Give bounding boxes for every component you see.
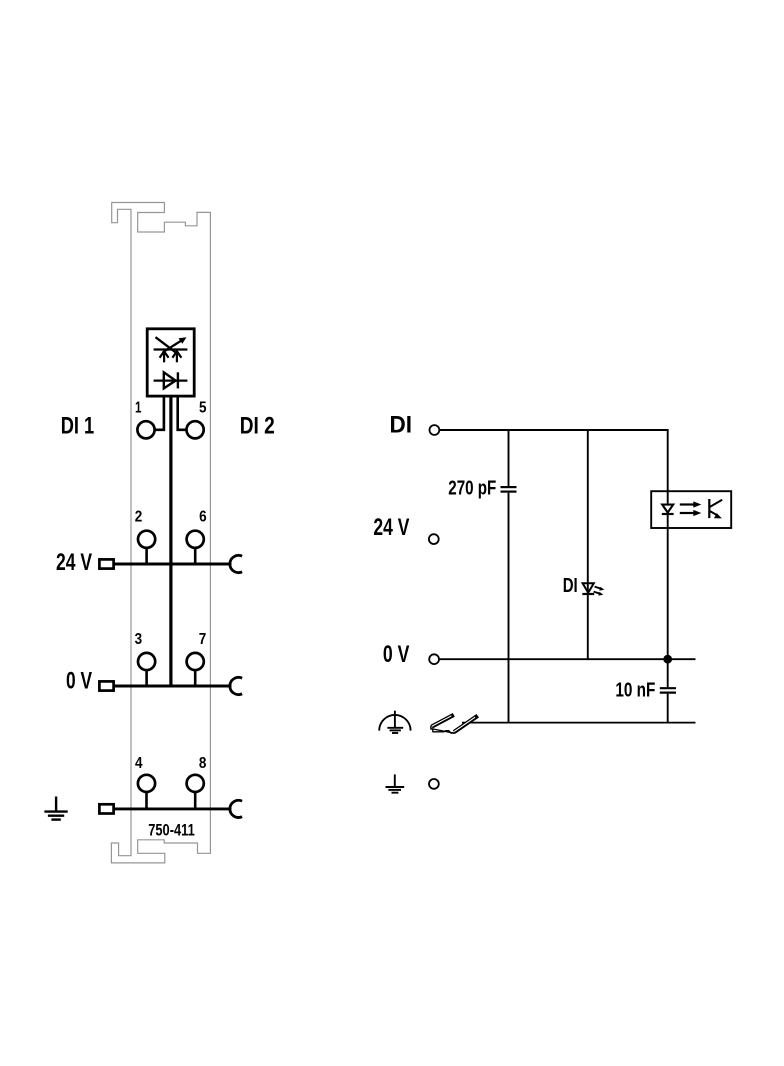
diode D1 cathode bar bbox=[177, 372, 179, 388]
stem pin 3 bbox=[145, 670, 148, 686]
contact pin 8 bbox=[187, 775, 204, 792]
contact pin 4 bbox=[138, 775, 155, 792]
diode D1 triangle bbox=[164, 372, 176, 388]
wire leg pin1 to box bbox=[155, 396, 164, 430]
optocoupler box bbox=[651, 491, 731, 528]
svg-text:2: 2 bbox=[135, 508, 143, 525]
optocoupler box U1 bbox=[147, 329, 194, 396]
up arrow left bbox=[160, 351, 169, 362]
contact pin 3 bbox=[138, 653, 155, 670]
ground symbol left bbox=[44, 797, 67, 820]
wire DI top bbox=[440, 429, 668, 431]
bus 0V bbox=[115, 685, 232, 688]
suppressor bar bbox=[154, 348, 188, 350]
terminal 0V bbox=[429, 654, 439, 664]
junction dot bbox=[663, 655, 672, 664]
wire center vertical to 0V bus bbox=[169, 396, 172, 686]
terminal 24V bbox=[429, 534, 439, 544]
terminal rect 24V bbox=[99, 559, 113, 568]
opto phototransistor bbox=[709, 499, 722, 518]
clamp hook 0V bbox=[230, 677, 242, 694]
contact pin 2 bbox=[138, 531, 155, 548]
stem pin 6 bbox=[194, 548, 197, 564]
suppressor diagonal line bbox=[156, 337, 176, 352]
wire leg pin5 to box bbox=[178, 396, 187, 430]
diode D1 line bbox=[154, 379, 188, 381]
terminal rect 0V bbox=[99, 681, 113, 690]
module outline 750-411 housing bbox=[111, 203, 210, 863]
suppressor arrow bbox=[163, 337, 187, 352]
svg-text:10 nF: 10 nF bbox=[615, 678, 655, 701]
svg-text:DI: DI bbox=[563, 574, 578, 597]
contact pin 5 bbox=[187, 421, 204, 438]
contact pin 6 bbox=[187, 531, 204, 548]
DIN rail symbol bbox=[431, 713, 479, 734]
terminal DI bbox=[430, 425, 440, 435]
ground symbol bottom right bbox=[386, 774, 405, 792]
svg-text:6: 6 bbox=[199, 508, 207, 525]
svg-text:270 pF: 270 pF bbox=[448, 477, 496, 500]
up arrow right bbox=[172, 351, 181, 362]
stem pin 4 bbox=[145, 792, 148, 809]
svg-text:0 V: 0 V bbox=[66, 668, 92, 695]
LED DI bbox=[582, 430, 594, 659]
svg-text:DI 1: DI 1 bbox=[61, 413, 94, 440]
bus ground bbox=[115, 807, 232, 810]
wire 0V bbox=[439, 658, 695, 660]
svg-text:1: 1 bbox=[135, 399, 142, 416]
svg-text:8: 8 bbox=[199, 755, 207, 772]
opto LED bbox=[662, 505, 674, 514]
svg-text:3: 3 bbox=[135, 631, 143, 648]
clamp hook ground bbox=[230, 800, 242, 817]
svg-text:24 V: 24 V bbox=[56, 549, 92, 576]
wire rail to branches bbox=[462, 722, 696, 724]
opto light arrows bbox=[680, 501, 702, 516]
stem pin 8 bbox=[194, 792, 197, 809]
clamp hook 24V bbox=[230, 555, 242, 572]
capacitor C1 270pF bbox=[501, 430, 517, 723]
terminal earth bbox=[429, 779, 439, 789]
LED light arrows bbox=[594, 587, 605, 596]
svg-text:DI: DI bbox=[390, 412, 413, 439]
contact pin 1 bbox=[137, 421, 154, 438]
svg-text:24 V: 24 V bbox=[373, 514, 409, 541]
svg-text:7: 7 bbox=[199, 631, 207, 648]
contact pin 7 bbox=[187, 653, 204, 670]
capacitor C2 10nF bbox=[660, 659, 676, 722]
svg-text:DI 2: DI 2 bbox=[240, 413, 275, 440]
svg-text:5: 5 bbox=[199, 399, 207, 416]
stem pin 2 bbox=[145, 548, 148, 564]
terminal rect ground bbox=[99, 804, 113, 813]
svg-text:750-411: 750-411 bbox=[148, 820, 195, 839]
wire right branch bbox=[667, 429, 669, 659]
svg-text:0 V: 0 V bbox=[383, 641, 410, 668]
bus 24V bbox=[115, 563, 232, 566]
chassis ground with arc bbox=[379, 711, 410, 733]
stem pin 7 bbox=[194, 670, 197, 686]
svg-text:4: 4 bbox=[135, 755, 143, 772]
